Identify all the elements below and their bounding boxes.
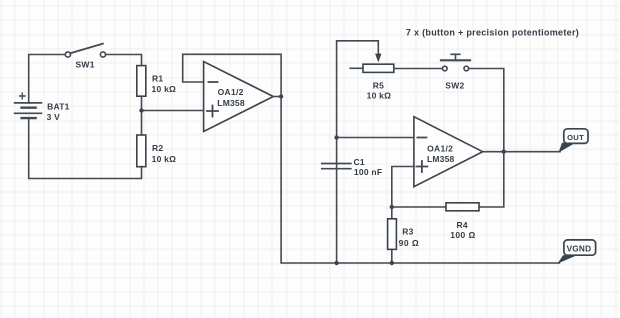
- svg-text:SW1: SW1: [76, 59, 95, 69]
- wire U1 feedback loop: [183, 54, 281, 96]
- svg-text:LM358: LM358: [217, 98, 245, 108]
- wire feedback node through R4 to output: [392, 152, 504, 207]
- svg-text:R5: R5: [373, 80, 384, 90]
- label SW2: [445, 80, 464, 90]
- label C1: [354, 157, 365, 167]
- svg-text:100 Ω: 100 Ω: [450, 230, 475, 240]
- wire R1 to R2: [141, 96, 143, 135]
- resistor R1: [137, 66, 146, 97]
- node R3 bottom junction: [390, 261, 394, 265]
- label R1: [152, 74, 163, 84]
- wire U2 plus input to feedback node: [392, 167, 414, 208]
- svg-text:R2: R2: [152, 143, 163, 153]
- svg-text:OA1/2: OA1/2: [218, 87, 244, 97]
- label 10 kΩ (R5): [367, 91, 392, 101]
- label OA1/2 (U1): [218, 87, 244, 97]
- svg-text:LM358: LM358: [427, 154, 455, 164]
- resistor R3: [388, 219, 397, 250]
- net label VGND: [558, 240, 596, 264]
- wire battery plus to SW1: [29, 55, 66, 103]
- wire R5 to SW2: [395, 68, 443, 70]
- svg-text:OA1/2: OA1/2: [427, 144, 453, 154]
- svg-text:10 kΩ: 10 kΩ: [367, 91, 392, 101]
- node C1 bottom junction: [334, 261, 338, 265]
- label SW1: [76, 59, 95, 69]
- label 3 V: [47, 112, 61, 122]
- svg-text:3 V: 3 V: [47, 112, 61, 122]
- wire R3 to bottom rail: [391, 249, 393, 263]
- resistor R5 (potentiometer): [350, 64, 394, 72]
- svg-text:R1: R1: [152, 74, 163, 84]
- svg-text:VGND: VGND: [567, 245, 592, 254]
- wire top branch to R5 wiper: [337, 41, 379, 138]
- potentiometer R5 wiper arrow: [375, 54, 381, 63]
- label 10 kΩ (R1): [152, 84, 177, 94]
- label BAT1: [47, 102, 70, 112]
- wire U2 apex to output node: [483, 151, 504, 153]
- op-amp U2 OA1/2 LM358: [414, 117, 483, 187]
- label 100 nF: [354, 167, 382, 177]
- switch SW1: [65, 44, 105, 58]
- battery BAT1: [15, 93, 42, 118]
- svg-text:R3: R3: [402, 226, 413, 236]
- wire SW1 to R1: [106, 55, 142, 65]
- label LM358 (U2): [427, 154, 455, 164]
- svg-text:BAT1: BAT1: [47, 102, 70, 112]
- wire U1 output down to bottom rail: [281, 97, 559, 264]
- label R3: [402, 226, 413, 236]
- svg-text:7 x (button + precision potent: 7 x (button + precision potentiometer): [406, 28, 579, 38]
- net label OUT: [559, 129, 589, 153]
- resistor R4: [446, 203, 479, 211]
- node C1 top junction: [334, 135, 338, 139]
- svg-text:100 nF: 100 nF: [354, 167, 382, 177]
- resistor R2: [137, 135, 146, 167]
- wire U1 apex to output node: [273, 96, 281, 98]
- label 10 kΩ (R2): [152, 154, 177, 164]
- svg-text:OUT: OUT: [567, 133, 584, 142]
- svg-text:SW2: SW2: [445, 80, 464, 90]
- label 100 Ω: [450, 230, 475, 240]
- wire SW2 to output node: [469, 69, 504, 152]
- wire C1 branch down to bottom rail: [336, 138, 338, 264]
- svg-text:C1: C1: [354, 157, 365, 167]
- wire output node to OUT tag: [504, 151, 560, 153]
- switch SW2 (push button): [441, 54, 470, 70]
- wire feedback node to R3: [391, 207, 393, 218]
- wire to U2 minus input: [337, 137, 414, 139]
- label 90 Ω: [399, 238, 420, 248]
- node feedback junction: [390, 205, 394, 209]
- node U2 output: [502, 150, 506, 154]
- svg-text:10 kΩ: 10 kΩ: [152, 154, 177, 164]
- capacitor C1: [322, 164, 351, 169]
- label R4: [457, 220, 468, 230]
- wire battery minus to R2 bottom: [29, 118, 142, 178]
- label R2: [152, 143, 163, 153]
- label 7 x (button + precision potentiometer): [406, 28, 579, 38]
- wire divider to op-amp U1 plus input: [142, 110, 204, 112]
- node U1 output: [279, 94, 283, 98]
- svg-text:90 Ω: 90 Ω: [399, 238, 420, 248]
- node divider junction: [139, 108, 143, 112]
- label LM358 (U1): [217, 98, 245, 108]
- label R5: [373, 80, 384, 90]
- label OA1/2 (U2): [427, 144, 453, 154]
- svg-text:10 kΩ: 10 kΩ: [152, 84, 177, 94]
- op-amp U1 OA1/2 LM358: [204, 62, 274, 132]
- svg-text:R4: R4: [457, 220, 468, 230]
